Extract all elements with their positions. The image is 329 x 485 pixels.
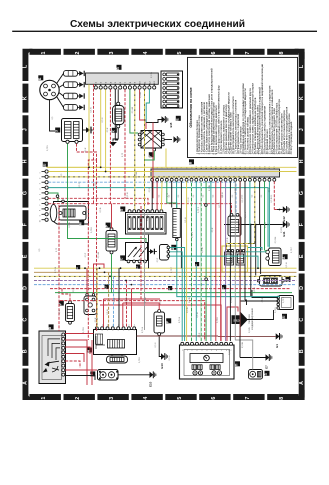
svg-text:10: 10 xyxy=(39,220,41,222)
svg-text:0,75 З: 0,75 З xyxy=(283,296,285,302)
svg-text:0,5 КЧ: 0,5 КЧ xyxy=(249,326,251,333)
svg-text:В: В xyxy=(189,161,193,164)
svg-text:0,5 Ж: 0,5 Ж xyxy=(91,107,93,112)
svg-text:2: 2 xyxy=(39,178,41,179)
svg-text:0,5 Ф: 0,5 Ф xyxy=(226,237,229,242)
svg-text:0,5 Ж: 0,5 Ж xyxy=(197,312,199,317)
svg-text:J: J xyxy=(23,128,29,131)
svg-text:Ш: Ш xyxy=(42,163,46,167)
svg-text:0,5: 0,5 xyxy=(261,195,263,198)
svg-text:а: а xyxy=(202,350,204,351)
svg-text:E12: E12 xyxy=(282,216,286,222)
svg-text:0,5 З: 0,5 З xyxy=(262,297,264,302)
svg-text:E: E xyxy=(299,254,305,258)
svg-text:K: K xyxy=(299,96,305,100)
svg-text:0,5 С: 0,5 С xyxy=(79,182,81,187)
svg-text:Схемы электрических соединений: Схемы электрических соединений xyxy=(70,19,245,30)
svg-text:0,5 Ж: 0,5 Ж xyxy=(286,262,288,267)
svg-text:E1: E1 xyxy=(275,344,279,348)
svg-text:0,5 З: 0,5 З xyxy=(149,187,151,192)
svg-text:0,75 Ж: 0,75 Ж xyxy=(179,317,181,323)
svg-text:0,5 ЗЧ: 0,5 ЗЧ xyxy=(189,296,191,303)
svg-text:П: П xyxy=(235,363,239,366)
svg-text:0,5 ЖЧ: 0,5 ЖЧ xyxy=(98,251,100,258)
svg-text:0,5 ЗЧ: 0,5 ЗЧ xyxy=(202,246,204,253)
svg-text:0,5 КЧ: 0,5 КЧ xyxy=(126,296,128,303)
svg-text:кондиционирования: кондиционирования xyxy=(252,308,254,330)
svg-text:0,5: 0,5 xyxy=(232,195,234,198)
svg-text:в: в xyxy=(129,324,131,325)
svg-text:C: C xyxy=(23,318,29,322)
svg-text:6: 6 xyxy=(211,51,217,54)
svg-text:H: H xyxy=(23,159,29,163)
svg-text:7: 7 xyxy=(39,205,41,206)
svg-text:А: А xyxy=(282,256,286,259)
svg-text:3: 3 xyxy=(109,51,115,54)
svg-text:8: 8 xyxy=(39,210,41,211)
svg-text:0,75 К: 0,75 К xyxy=(95,181,97,187)
svg-text:0,75 К: 0,75 К xyxy=(217,316,219,322)
svg-text:Обозначения на схеме: Обозначения на схеме xyxy=(189,87,193,127)
svg-text:0,75 Ч: 0,75 Ч xyxy=(47,144,49,150)
svg-text:0,75 Ч: 0,75 Ч xyxy=(265,221,267,227)
svg-text:K: K xyxy=(23,96,29,100)
svg-text:G: G xyxy=(299,191,305,195)
svg-text:0,5 Ж: 0,5 Ж xyxy=(254,287,256,292)
svg-text:4: 4 xyxy=(143,51,149,54)
svg-text:В: В xyxy=(48,326,52,329)
svg-text:П: П xyxy=(120,208,124,211)
svg-text:0,75 С: 0,75 С xyxy=(291,247,293,253)
svg-text:G: G xyxy=(23,191,29,195)
svg-text:Система: Система xyxy=(249,314,251,324)
svg-text:0,5: 0,5 xyxy=(212,195,214,198)
svg-text:E: E xyxy=(23,254,29,258)
svg-text:6: 6 xyxy=(211,397,217,400)
svg-text:4: 4 xyxy=(143,397,149,400)
svg-text:0,5 Ф: 0,5 Ф xyxy=(218,202,221,207)
svg-text:а: а xyxy=(187,350,189,351)
svg-text:D: D xyxy=(23,286,29,290)
svg-text:J: J xyxy=(299,128,305,131)
svg-text:0,5 Ч: 0,5 Ч xyxy=(188,197,190,202)
svg-text:0,75 К: 0,75 К xyxy=(83,326,85,332)
svg-text:7: 7 xyxy=(245,51,251,54)
svg-text:0,5 Б: 0,5 Б xyxy=(160,299,162,304)
svg-text:1: 1 xyxy=(41,51,47,54)
svg-text:40 Жгут проводов задний: 40 Жгут проводов задний xyxy=(289,121,293,154)
svg-text:8: 8 xyxy=(279,397,285,400)
svg-text:0,5 Ж: 0,5 Ж xyxy=(239,262,241,267)
svg-text:Ш: Ш xyxy=(282,315,286,319)
svg-text:в: в xyxy=(123,324,125,325)
svg-text:а: а xyxy=(192,350,194,351)
svg-text:4: 4 xyxy=(39,189,41,190)
svg-text:а: а xyxy=(206,350,208,351)
svg-text:0,5 КЧ: 0,5 КЧ xyxy=(229,348,231,355)
svg-text:0,5 ГЧ: 0,5 ГЧ xyxy=(245,211,247,217)
svg-text:а: а xyxy=(197,350,199,351)
svg-text:2: 2 xyxy=(75,397,81,400)
svg-text:0,5 Ж: 0,5 Ж xyxy=(185,217,187,222)
svg-text:0,5: 0,5 xyxy=(242,195,244,198)
svg-text:0,75 Ч: 0,75 Ч xyxy=(235,186,237,192)
svg-text:0,5 ЧБ: 0,5 ЧБ xyxy=(242,341,244,348)
svg-text:С: С xyxy=(120,257,124,260)
svg-text:0,5 Ж: 0,5 Ж xyxy=(69,222,71,227)
svg-text:а: а xyxy=(182,350,184,351)
svg-text:E7: E7 xyxy=(265,365,269,369)
svg-text:B: B xyxy=(23,349,29,353)
svg-text:0,5 Ж: 0,5 Ж xyxy=(222,192,224,197)
svg-text:0,5 ЖЧ: 0,5 ЖЧ xyxy=(132,106,134,113)
svg-text:0,5 ЗЧ: 0,5 ЗЧ xyxy=(187,306,189,313)
svg-text:8: 8 xyxy=(279,51,285,54)
svg-text:0,5 Ч: 0,5 Ч xyxy=(119,339,121,344)
svg-text:а: а xyxy=(226,350,228,351)
svg-text:B: B xyxy=(299,349,305,353)
svg-text:0,5: 0,5 xyxy=(193,195,195,198)
svg-text:0,5 ЗБ: 0,5 ЗБ xyxy=(209,184,211,191)
svg-text:0,75 Г: 0,75 Г xyxy=(106,241,108,247)
svg-text:3: 3 xyxy=(39,183,41,184)
svg-text:0,5 Ч: 0,5 Ч xyxy=(102,117,104,122)
svg-text:A: A xyxy=(299,381,305,385)
svg-text:0,5 КБ: 0,5 КБ xyxy=(147,214,149,221)
svg-text:0,5 ЗБ: 0,5 ЗБ xyxy=(151,71,153,78)
svg-text:0,75 Ч: 0,75 Ч xyxy=(145,296,147,302)
svg-text:0,5 Ж: 0,5 Ж xyxy=(127,192,129,197)
svg-text:В: В xyxy=(116,67,120,70)
svg-text:0,5: 0,5 xyxy=(271,195,273,198)
svg-text:Г: Г xyxy=(148,155,152,157)
svg-text:0,5 П: 0,5 П xyxy=(164,137,166,142)
svg-text:0,5 Ф: 0,5 Ф xyxy=(270,197,273,202)
svg-text:H: H xyxy=(299,159,305,163)
svg-text:а: а xyxy=(221,350,223,351)
svg-text:0,75 Ж: 0,75 Ж xyxy=(55,267,57,273)
svg-text:0,75 К: 0,75 К xyxy=(139,356,141,362)
svg-text:0,75 Ж: 0,75 Ж xyxy=(142,327,144,333)
svg-text:S/БЗ: S/БЗ xyxy=(233,319,240,323)
svg-text:0,5: 0,5 xyxy=(251,195,253,198)
svg-text:5: 5 xyxy=(39,194,41,195)
svg-text:0,5 ПЧ: 0,5 ПЧ xyxy=(281,226,283,233)
svg-text:E10: E10 xyxy=(149,381,153,387)
svg-text:0,75 З: 0,75 З xyxy=(198,206,200,212)
svg-text:0,5 Б: 0,5 Б xyxy=(100,207,102,212)
svg-text:0,5 З: 0,5 З xyxy=(205,317,207,322)
svg-text:A: A xyxy=(23,381,29,385)
svg-text:0,5: 0,5 xyxy=(203,195,205,198)
svg-text:0,5 Ж: 0,5 Ж xyxy=(107,309,109,314)
svg-text:0,75 З: 0,75 З xyxy=(192,231,194,237)
svg-text:9: 9 xyxy=(39,215,41,216)
svg-text:а: а xyxy=(231,350,233,351)
svg-text:6: 6 xyxy=(39,199,41,200)
svg-text:Е15: Е15 xyxy=(169,122,173,127)
svg-text:0,5 КЧ: 0,5 КЧ xyxy=(231,296,233,303)
svg-text:7: 7 xyxy=(245,397,251,400)
svg-text:в: в xyxy=(134,324,136,325)
svg-text:Б: Б xyxy=(38,77,42,80)
svg-text:5: 5 xyxy=(177,51,183,54)
svg-text:0,5: 0,5 xyxy=(159,195,161,198)
svg-text:0,5 З: 0,5 З xyxy=(199,332,201,337)
svg-text:3: 3 xyxy=(109,397,115,400)
svg-text:1: 1 xyxy=(41,397,47,400)
svg-text:2: 2 xyxy=(75,51,81,54)
svg-text:0,5: 0,5 xyxy=(178,195,180,198)
svg-text:0,75 Ч: 0,75 Ч xyxy=(275,306,277,312)
svg-text:М: М xyxy=(79,222,83,225)
svg-text:0,5 С: 0,5 С xyxy=(242,197,244,202)
svg-text:5: 5 xyxy=(177,397,183,400)
svg-text:E13: E13 xyxy=(160,363,164,369)
svg-text:1: 1 xyxy=(39,173,41,174)
svg-text:0,5 Ч: 0,5 Ч xyxy=(155,342,157,347)
svg-text:D: D xyxy=(299,286,305,290)
svg-text:0,5 ЖЧ: 0,5 ЖЧ xyxy=(136,171,138,178)
svg-text:а: а xyxy=(211,350,213,351)
svg-text:0,75 К: 0,75 К xyxy=(91,226,93,232)
svg-text:0,5 ЗЖ: 0,5 ЗЖ xyxy=(275,237,277,244)
svg-text:0,75 С: 0,75 С xyxy=(171,267,173,273)
svg-text:0,5 Ч: 0,5 Ч xyxy=(255,232,257,237)
svg-text:0,5 Ч: 0,5 Ч xyxy=(169,355,171,360)
svg-text:Ш: Ш xyxy=(171,246,175,250)
svg-text:а: а xyxy=(216,350,218,351)
svg-text:0,5 КБ: 0,5 КБ xyxy=(140,91,142,98)
svg-text:C: C xyxy=(299,318,305,322)
